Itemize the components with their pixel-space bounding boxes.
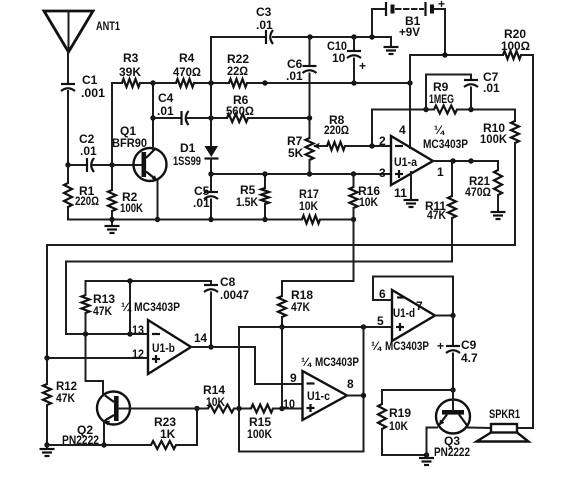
svg-text:11: 11	[394, 186, 407, 200]
svg-text:¼: ¼	[371, 339, 382, 353]
wire R18 top jog	[282, 280, 354, 282]
wire R18 stem to pin10	[281, 327, 283, 409]
svg-text:+: +	[438, 0, 445, 11]
svg-text:.01: .01	[286, 69, 303, 83]
node Q3 base node	[450, 387, 455, 392]
wire bottom line left	[67, 207, 69, 220]
capacitor C8	[204, 275, 249, 347]
node loop tap pin13	[127, 331, 132, 336]
capacitor C3	[256, 5, 273, 44]
wire antenna to C1	[67, 52, 69, 84]
wire C1 to C2 node	[67, 91, 69, 165]
svg-text:BFR90: BFR90	[112, 136, 147, 150]
wire rail R3-R4	[140, 82, 176, 84]
ground near Q3	[419, 455, 434, 465]
node output R11	[450, 158, 455, 163]
node R7 bottom	[307, 171, 312, 176]
ground under R2	[105, 220, 120, 234]
resistor R6	[226, 93, 254, 122]
transistor Q2	[62, 392, 130, 448]
svg-text:1SS99: 1SS99	[173, 154, 201, 168]
battery B1	[372, 0, 445, 55]
resistor R17	[299, 187, 320, 224]
svg-text:.01: .01	[193, 196, 210, 210]
node U1-d output	[450, 313, 455, 318]
node C5 bottom	[208, 217, 213, 222]
svg-text:+: +	[437, 339, 444, 353]
capacitor C4	[157, 91, 189, 125]
wire ground line	[47, 444, 151, 446]
resistor R16	[350, 174, 381, 220]
svg-text:1: 1	[437, 165, 444, 179]
wire pin4 stem	[409, 55, 411, 148]
resistor R22	[227, 52, 249, 87]
node R16 top	[351, 171, 356, 176]
wire Q2 collector path	[86, 334, 104, 395]
wire C2 to base node	[94, 164, 113, 166]
wire V+ to R20 line	[410, 55, 503, 83]
resistor R21	[465, 161, 502, 212]
node C4 tap	[150, 115, 155, 120]
wire base line seg1	[130, 408, 208, 410]
svg-text:R4: R4	[179, 51, 195, 65]
wire pin8 vertical	[363, 327, 365, 452]
wire pin3 line	[211, 173, 391, 175]
wire to C2	[68, 164, 87, 166]
transistor Q1	[112, 124, 167, 181]
svg-text:PN2222: PN2222	[434, 445, 470, 459]
svg-text:100K: 100K	[120, 201, 143, 215]
wire Q1 emitter	[157, 181, 159, 220]
resistor R8	[321, 113, 391, 150]
svg-text:¼: ¼	[434, 123, 445, 137]
svg-text:13: 13	[132, 323, 144, 337]
svg-text:+: +	[359, 59, 366, 73]
svg-text:D1: D1	[180, 141, 196, 155]
svg-text:10K: 10K	[206, 395, 225, 409]
resistor R4	[173, 51, 201, 87]
wire base line seg2	[234, 408, 251, 410]
svg-text:220Ω: 220Ω	[324, 123, 349, 137]
node C10 top	[351, 34, 356, 39]
wire pin11 stub	[410, 172, 412, 200]
wire bottom line	[68, 219, 302, 221]
svg-text:.01: .01	[483, 81, 500, 95]
wire loop tap vertical	[129, 281, 131, 334]
wire rail right top	[521, 55, 533, 428]
svg-text:ANT1: ANT1	[96, 19, 120, 33]
wire R23 to base node	[176, 409, 197, 446]
svg-text:10K: 10K	[299, 199, 318, 213]
svg-text:100Ω: 100Ω	[501, 39, 530, 53]
node R5 top	[262, 171, 267, 176]
capacitor C5	[193, 174, 218, 220]
wire base node to Q1	[112, 164, 141, 166]
node Q1 base junction	[109, 162, 114, 167]
resistor R9	[429, 80, 457, 114]
svg-text:R3: R3	[123, 51, 139, 65]
diode D1	[173, 118, 219, 174]
node C8 bottom	[208, 344, 213, 349]
node pin10 junction	[279, 406, 284, 411]
svg-text:3: 3	[379, 166, 386, 180]
svg-text:C3: C3	[256, 5, 272, 19]
svg-text:6: 6	[379, 287, 386, 301]
svg-text:1MEG: 1MEG	[429, 92, 454, 106]
node D1 top rail	[208, 80, 213, 85]
resistor R5	[236, 174, 269, 220]
svg-text:470Ω: 470Ω	[173, 65, 201, 79]
svg-text:1.5K: 1.5K	[236, 195, 258, 209]
resistor R18	[278, 281, 313, 327]
svg-text:U1-a: U1-a	[394, 155, 417, 169]
ground under R12	[40, 445, 55, 456]
node pin5-pin8 tap	[361, 324, 366, 329]
resistor R13	[82, 281, 116, 334]
svg-text:U1-d: U1-d	[393, 306, 415, 320]
svg-text:10: 10	[332, 51, 346, 65]
wire pin13 line	[66, 333, 148, 335]
wire U1-d output	[435, 315, 453, 317]
svg-text:MC3403P: MC3403P	[423, 137, 468, 151]
wire D1-R6	[211, 117, 227, 119]
wire pin12 line	[47, 357, 148, 359]
resistor R23	[151, 415, 176, 449]
svg-text:¼: ¼	[121, 300, 132, 314]
node C2-left junction	[65, 162, 70, 167]
wire U1-b output	[191, 347, 303, 384]
ground under R21	[491, 212, 506, 219]
node D1 anode	[208, 115, 213, 120]
wire speaker right	[517, 427, 533, 429]
wire cross line A	[47, 245, 515, 358]
wire C4-D1	[188, 117, 211, 119]
wire U1-d feedback loop	[373, 277, 453, 316]
svg-text:10: 10	[283, 397, 295, 411]
svg-text:470Ω: 470Ω	[465, 185, 491, 199]
svg-text:47K: 47K	[56, 391, 75, 405]
svg-text:10K: 10K	[389, 419, 408, 433]
ground stub battery	[384, 37, 399, 54]
svg-text:47K: 47K	[93, 304, 112, 318]
wire C4 line	[153, 117, 182, 119]
wire R16 lower stem	[353, 220, 355, 282]
capacitor C6	[286, 37, 317, 118]
wire R13 loop top	[86, 280, 212, 282]
resistor R19	[378, 390, 411, 455]
resistor R2	[108, 165, 143, 220]
svg-text:5K: 5K	[288, 146, 304, 160]
speaker SPKR1	[477, 407, 529, 442]
node pin8 output	[361, 393, 366, 398]
node rail x265	[262, 80, 267, 85]
wire bottom line right	[320, 219, 354, 221]
wire Q2 emitter	[103, 421, 105, 445]
svg-text:.001: .001	[81, 86, 105, 100]
svg-text:MC3403P: MC3403P	[315, 355, 359, 369]
wire feedback stem	[371, 110, 373, 147]
node output R21	[468, 158, 473, 163]
node R2 bottom	[109, 217, 114, 222]
resistor R1	[64, 165, 99, 220]
svg-text:U1-c: U1-c	[307, 389, 330, 403]
svg-text:5: 5	[377, 314, 384, 328]
node D1 cathode	[208, 171, 213, 176]
svg-text:U1-b: U1-b	[152, 341, 175, 355]
wire R19 top	[382, 389, 453, 391]
svg-text:SPKR1: SPKR1	[489, 407, 520, 421]
wire pin5 line	[239, 326, 392, 328]
node C6 top	[307, 34, 312, 39]
ground pin11	[404, 200, 419, 207]
node R9 left	[423, 107, 428, 112]
svg-text:.01: .01	[256, 18, 273, 32]
svg-text:7: 7	[416, 299, 423, 313]
svg-text:2: 2	[379, 134, 386, 148]
capacitor C9	[437, 316, 478, 391]
node battery plus	[442, 52, 447, 57]
svg-text:C4: C4	[158, 91, 174, 105]
transistor Q3	[434, 400, 470, 460]
svg-text:1K: 1K	[160, 427, 176, 441]
svg-text:.01: .01	[80, 144, 97, 158]
svg-text:100K: 100K	[247, 427, 272, 441]
svg-text:560Ω: 560Ω	[226, 104, 254, 118]
node R14-R15 junction	[236, 406, 241, 411]
node pin12 tap	[44, 355, 49, 360]
antenna ANT1	[44, 11, 120, 52]
svg-text:10K: 10K	[359, 195, 378, 209]
svg-text:C8: C8	[220, 275, 236, 289]
wire rail R22 to end	[247, 82, 410, 84]
node R16 bottom	[351, 217, 356, 222]
svg-text:C1: C1	[82, 73, 98, 87]
svg-text:22Ω: 22Ω	[227, 64, 248, 78]
node rail end at V+ stem	[407, 80, 412, 85]
svg-text:14: 14	[194, 331, 207, 345]
capacitor C1	[61, 73, 105, 100]
node Q2 emitter gnd	[101, 442, 106, 447]
wire top loop right	[273, 36, 391, 38]
wire Q2 base	[119, 408, 130, 410]
wire Q1 collector	[152, 83, 154, 149]
wire base line seg3	[273, 408, 303, 410]
svg-text:.01: .01	[157, 104, 174, 118]
resistor R11	[425, 161, 456, 262]
resistor R14	[203, 383, 234, 413]
svg-text:12: 12	[132, 347, 144, 361]
node Q1 emitter bottom	[155, 217, 160, 222]
svg-text:220Ω: 220Ω	[75, 194, 99, 208]
wire Q3 base stem	[452, 390, 454, 410]
node Q3 emitter gnd	[424, 452, 429, 457]
svg-text:47K: 47K	[291, 300, 310, 314]
wire left loop down	[239, 327, 364, 452]
node pin2 feedback tap	[369, 143, 374, 148]
potentiometer R7	[287, 118, 321, 174]
op-amp U1-d	[371, 287, 435, 353]
resistor R12	[43, 358, 77, 445]
svg-text:MC3403P: MC3403P	[385, 339, 429, 353]
svg-text:C9: C9	[461, 338, 477, 352]
svg-text:47K: 47K	[427, 208, 446, 222]
node battery left tap	[369, 34, 374, 39]
node Q2 base junction	[194, 406, 199, 411]
wire U1-c output	[347, 395, 364, 397]
wire Q3 collector	[468, 427, 491, 430]
wire rail R4-R22	[194, 82, 229, 84]
node R9 right	[468, 107, 473, 112]
wire U1-a output	[433, 160, 498, 162]
node R13 bottom	[83, 331, 88, 336]
svg-text:4: 4	[399, 123, 406, 137]
svg-text:.0047: .0047	[220, 288, 249, 302]
node ground line left	[44, 442, 49, 447]
svg-text:4.7: 4.7	[461, 351, 478, 365]
wire R19 bottom	[382, 454, 427, 456]
svg-text:9: 9	[290, 371, 297, 385]
svg-text:R19: R19	[389, 406, 411, 420]
svg-text:MC3403P: MC3403P	[134, 300, 180, 314]
wire R6 to R7 node	[248, 117, 310, 119]
wire feedback line left	[372, 109, 434, 111]
node Q1 collector at rail	[150, 80, 155, 85]
resistor R3	[119, 51, 141, 87]
resistor R20	[501, 27, 530, 59]
svg-text:+9V: +9V	[399, 25, 420, 39]
svg-text:8: 8	[347, 377, 354, 391]
capacitor C7 loop	[426, 70, 500, 110]
op-amp U1-a	[379, 123, 468, 200]
wire top loop left	[211, 37, 264, 83]
node loop top tap	[127, 278, 132, 283]
capacitor C10	[327, 37, 366, 83]
wire cross line B	[66, 262, 452, 335]
wire D1 top stem	[210, 83, 212, 118]
node R7 top	[307, 115, 312, 120]
wire Q3 emitter jog	[427, 428, 438, 456]
wire main rail left corner	[112, 83, 122, 165]
resistor R10	[480, 110, 519, 246]
wire feedback line right	[457, 109, 515, 111]
capacitor C2	[79, 132, 97, 172]
node R5 bottom	[262, 217, 267, 222]
node C10 bottom	[351, 80, 356, 85]
op-amp U1-c	[283, 355, 359, 420]
svg-text:39K: 39K	[119, 65, 141, 79]
svg-text:¼: ¼	[301, 355, 312, 369]
op-amp U1-b	[121, 300, 207, 374]
node R18 at pin5 line	[279, 324, 284, 329]
resistor R15	[247, 405, 273, 442]
svg-text:100K: 100K	[480, 132, 507, 146]
